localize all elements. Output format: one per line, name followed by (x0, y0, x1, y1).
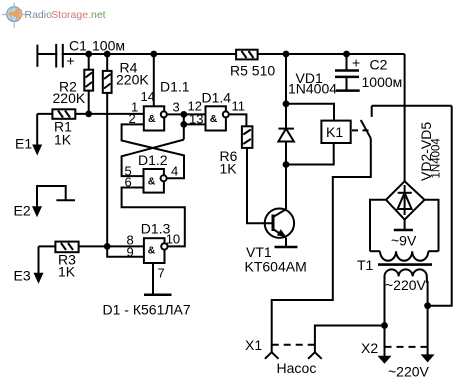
relay K1 (286, 104, 351, 165)
svg-text:E2: E2 (14, 203, 31, 219)
svg-text:+: + (352, 55, 360, 71)
svg-text:11: 11 (232, 99, 246, 114)
svg-text:4: 4 (171, 164, 178, 179)
capacitor C2 (335, 54, 402, 91)
wire D1.3 out to D1.2 pin6 (122, 188, 185, 247)
svg-text:&: & (210, 113, 218, 125)
svg-text:C1: C1 (69, 38, 87, 54)
transistor VT1 (245, 209, 307, 275)
resistor R3 (39, 242, 108, 280)
svg-text:1K: 1K (58, 264, 76, 280)
wire bridge AC left (370, 200, 386, 251)
node X2 left (381, 322, 388, 329)
wire X1 right to mains (315, 326, 385, 353)
svg-text:10: 10 (166, 232, 180, 247)
wire D1.4 output to R6 (229, 114, 247, 126)
svg-text:1000м: 1000м (362, 74, 403, 90)
op-amp gate D1.1 (129, 54, 190, 131)
svg-text:Radio: Radio (25, 9, 53, 21)
diode VD1 (278, 54, 337, 209)
wire bridge AC right (425, 200, 439, 251)
svg-text:13: 13 (189, 112, 203, 127)
svg-text:&: & (148, 175, 156, 187)
connector X2 (361, 340, 435, 380)
resistor R1 (37, 109, 144, 147)
ground bridge minus (394, 220, 413, 230)
svg-text:D1.1: D1.1 (160, 79, 190, 95)
wire D1.1 output to dots (167, 113, 184, 115)
bridge VD2-VD5 (386, 122, 443, 220)
node pin 13 dot (180, 121, 187, 128)
connector X1 (245, 337, 322, 376)
svg-text:X1: X1 (245, 337, 262, 353)
wire primary right down (427, 281, 429, 356)
node VD1 top (283, 100, 290, 107)
svg-text:1K: 1K (220, 161, 238, 177)
svg-text:9: 9 (127, 245, 134, 260)
ground VT1 emitter (275, 246, 298, 249)
resistor R6 (220, 126, 253, 176)
node pins 8-9 junction (104, 243, 111, 250)
svg-text:~220V: ~220V (388, 364, 430, 380)
svg-text:KT604AM: KT604AM (245, 259, 307, 275)
resistor R5 (230, 50, 275, 79)
wire RS cross coupling (122, 124, 184, 178)
electrode E2 (14, 186, 76, 219)
node top rail dots (85, 51, 350, 58)
op-amp gate D1.2 (125, 152, 179, 193)
svg-text:~9V: ~9V (391, 233, 417, 249)
svg-text:T1: T1 (357, 257, 374, 273)
electrode E3 (14, 246, 44, 283)
wire primary left down (384, 281, 386, 357)
svg-text:1N4004: 1N4004 (431, 138, 443, 179)
op-amp gate D1.4 (184, 90, 245, 131)
svg-text:C2: C2 (370, 57, 388, 73)
op-amp gate D1.3 (107, 220, 180, 263)
svg-text:D1.2: D1.2 (138, 152, 168, 168)
svg-text:Насос: Насос (277, 360, 317, 376)
node pin 3-12 dot (180, 111, 187, 118)
svg-text:net: net (91, 9, 106, 21)
capacitor C1 (37, 38, 125, 69)
electrode E1 (15, 114, 42, 156)
switch contact K1.1 (352, 106, 372, 139)
svg-text:&: & (148, 113, 156, 125)
wire right rail down to X2 right (428, 106, 452, 306)
svg-text:E1: E1 (15, 136, 32, 152)
wire AC top from switch to right rail (372, 105, 452, 107)
node R1-R2 junction (85, 111, 92, 118)
svg-text:7: 7 (158, 266, 165, 281)
svg-text:220K: 220K (116, 72, 149, 88)
wire top rail (37, 53, 404, 55)
svg-text:3: 3 (173, 100, 180, 115)
svg-text:Storage: Storage (51, 9, 88, 21)
transformer T1 (370, 251, 439, 283)
svg-text:~220V: ~220V (385, 277, 427, 293)
resistor R2 (53, 54, 94, 114)
node X2 right (424, 302, 431, 309)
svg-text:E3: E3 (14, 268, 31, 284)
resistor R4 (103, 54, 150, 246)
svg-text:220K: 220K (53, 90, 86, 106)
svg-text:X2: X2 (361, 340, 378, 356)
svg-text:K1: K1 (326, 124, 343, 140)
svg-text:+: + (67, 53, 75, 69)
logo RadioStorage.net (2, 3, 106, 29)
svg-text:1K: 1K (54, 132, 72, 148)
wire R6 to VT1 base (247, 148, 273, 223)
svg-text:&: & (148, 244, 156, 256)
svg-text:D1 - К561ЛА7: D1 - К561ЛА7 (103, 302, 191, 318)
svg-text:1N4004: 1N4004 (288, 81, 337, 97)
node VD1 bottom (283, 161, 290, 168)
wire switch pivot to X1 left (272, 138, 371, 352)
wire plus rail down to bridge (404, 54, 406, 181)
svg-text:R5 510: R5 510 (230, 63, 275, 79)
svg-text:D1.4: D1.4 (202, 90, 232, 106)
pin 7 ground (144, 263, 172, 295)
svg-text:14: 14 (141, 89, 155, 104)
